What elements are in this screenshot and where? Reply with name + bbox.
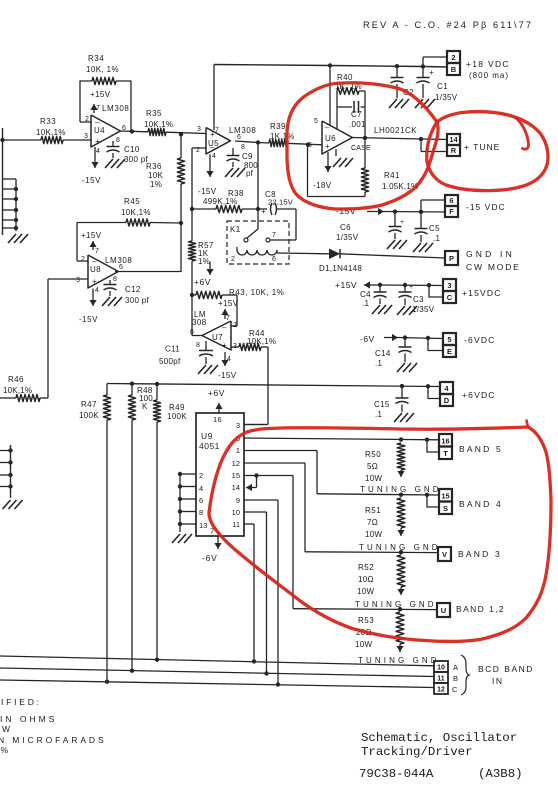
svg-text:LM308: LM308 [229, 126, 256, 135]
svg-text:B: B [451, 65, 457, 74]
svg-text:R35: R35 [146, 109, 162, 118]
svg-text:CIFIED:: CIFIED: [0, 697, 42, 707]
svg-text:16: 16 [213, 415, 222, 424]
svg-text:12: 12 [232, 459, 240, 468]
svg-text:1K,1%: 1K,1% [270, 132, 295, 141]
svg-text:+: + [222, 341, 227, 350]
svg-text:R36: R36 [146, 162, 162, 171]
svg-text:79C38-044A: 79C38-044A [359, 767, 434, 781]
svg-text:8: 8 [196, 342, 200, 349]
svg-text:+: + [409, 284, 413, 291]
svg-text:–: – [92, 257, 97, 266]
svg-text:15: 15 [232, 471, 240, 480]
svg-text:4: 4 [212, 153, 216, 160]
svg-text:U8: U8 [90, 265, 101, 274]
svg-text:6: 6 [272, 256, 276, 263]
svg-text:-6VDC: -6VDC [464, 335, 496, 345]
svg-text:6: 6 [308, 142, 312, 149]
svg-text:R43, 10K, 1%: R43, 10K, 1% [229, 288, 284, 297]
svg-text:R45: R45 [124, 197, 140, 206]
svg-text:10K: 10K [148, 171, 163, 180]
svg-text:10W: 10W [355, 640, 372, 649]
svg-text:R: R [451, 146, 457, 155]
svg-text:3: 3 [76, 277, 80, 284]
svg-text:LM308: LM308 [102, 104, 129, 113]
svg-text:+: + [95, 137, 100, 146]
svg-text:K: K [142, 402, 148, 411]
svg-text:7: 7 [95, 248, 99, 255]
svg-text:1%: 1% [198, 257, 210, 266]
svg-text:P: P [449, 254, 454, 263]
svg-text:+15V: +15V [81, 231, 102, 240]
svg-text:R34: R34 [88, 54, 104, 63]
svg-text:BAND 3: BAND 3 [458, 549, 502, 559]
svg-text:REV A - C.O. #24 Pβ 611\77: REV A - C.O. #24 Pβ 611\77 [363, 20, 533, 30]
svg-text:(A3B8): (A3B8) [478, 767, 523, 781]
svg-text:C3: C3 [413, 295, 424, 304]
svg-text:14: 14 [232, 483, 240, 492]
svg-text:10K,1%: 10K,1% [144, 120, 173, 129]
svg-text:CW MODE: CW MODE [466, 262, 521, 272]
svg-text:+: + [261, 207, 266, 216]
svg-text:8: 8 [113, 276, 117, 283]
svg-text:+15V: +15V [90, 90, 111, 99]
svg-text:-15V: -15V [198, 187, 217, 196]
svg-text:4: 4 [95, 287, 99, 294]
svg-text:15: 15 [441, 492, 449, 501]
svg-text:10W: 10W [365, 530, 382, 539]
svg-text:13: 13 [199, 521, 207, 530]
svg-text:IN: IN [492, 676, 504, 686]
svg-text:BAND 4: BAND 4 [459, 499, 503, 509]
svg-text:TUNING GND: TUNING GND [355, 600, 437, 609]
svg-text:–: – [325, 123, 330, 132]
svg-text:9: 9 [236, 496, 240, 505]
svg-text:-18V: -18V [313, 181, 332, 190]
svg-text:U9: U9 [201, 431, 213, 441]
svg-text:10: 10 [232, 508, 240, 517]
svg-text:4051: 4051 [199, 441, 220, 451]
svg-text:10Ω: 10Ω [358, 575, 374, 584]
svg-text:U4: U4 [94, 126, 105, 135]
svg-text:1/35V: 1/35V [435, 93, 458, 102]
svg-text:22,15V: 22,15V [268, 198, 293, 207]
svg-text:R52: R52 [358, 563, 374, 572]
svg-text:–: – [222, 323, 227, 332]
svg-text:R40: R40 [337, 73, 353, 82]
svg-text:%: % [1, 745, 11, 755]
svg-text:C11: C11 [165, 345, 180, 354]
svg-text:D1,1N4148: D1,1N4148 [319, 264, 362, 273]
svg-text:10W: 10W [365, 474, 382, 483]
svg-text:R47: R47 [81, 400, 97, 409]
svg-text:12: 12 [437, 687, 445, 694]
svg-text:C6: C6 [340, 223, 351, 232]
svg-text:100K: 100K [79, 411, 99, 420]
svg-text:+6V: +6V [208, 388, 225, 398]
svg-text:Tracking/Driver: Tracking/Driver [361, 745, 473, 759]
svg-text:E: E [447, 347, 452, 356]
svg-text:-15V: -15V [82, 176, 101, 185]
svg-text:8: 8 [116, 137, 120, 144]
svg-text:N MICROFARADS: N MICROFARADS [0, 735, 107, 745]
svg-text:10K, 1%: 10K, 1% [86, 65, 119, 74]
svg-text:+ TUNE: + TUNE [464, 142, 500, 152]
svg-text:–: – [95, 118, 100, 127]
svg-text:BAND 1,2: BAND 1,2 [456, 604, 505, 614]
svg-text:-6V: -6V [202, 553, 218, 563]
svg-text:10K,1%: 10K,1% [121, 208, 151, 217]
svg-text:3: 3 [236, 421, 240, 430]
svg-text:5: 5 [447, 335, 451, 344]
svg-text:R49: R49 [169, 403, 185, 412]
svg-text:R33: R33 [40, 117, 56, 126]
svg-text:11: 11 [232, 520, 240, 529]
svg-text:Schematic, Oscillator: Schematic, Oscillator [361, 731, 517, 745]
svg-text:1: 1 [236, 446, 240, 455]
svg-text:+: + [92, 277, 97, 286]
svg-text:–: – [210, 143, 215, 152]
svg-text:7: 7 [272, 232, 276, 239]
svg-text:8: 8 [199, 508, 203, 517]
svg-text:C: C [447, 293, 453, 302]
svg-text:C12: C12 [125, 285, 141, 294]
svg-text:C4: C4 [360, 290, 371, 299]
svg-text:C10: C10 [124, 145, 140, 154]
svg-text:4: 4 [96, 148, 100, 155]
svg-text:GND IN: GND IN [466, 249, 515, 259]
svg-text:TUNING GND: TUNING GND [359, 543, 441, 552]
svg-text:C7: C7 [351, 110, 362, 119]
svg-text:C9: C9 [242, 152, 253, 161]
svg-text:IN OHMS: IN OHMS [0, 714, 57, 724]
svg-text:T: T [443, 449, 448, 458]
svg-text:+15V: +15V [218, 299, 239, 308]
svg-text:F: F [449, 207, 454, 216]
svg-text:C5: C5 [429, 224, 440, 233]
svg-text:16: 16 [441, 437, 449, 446]
svg-text:2: 2 [451, 53, 455, 62]
svg-text:R39: R39 [270, 122, 286, 131]
svg-text:C14: C14 [375, 349, 391, 358]
svg-text:6: 6 [449, 196, 453, 205]
svg-text:300 pf: 300 pf [125, 296, 150, 305]
svg-text:BCD BAND: BCD BAND [478, 664, 534, 674]
svg-text:308: 308 [192, 318, 207, 327]
svg-text:-15V: -15V [79, 315, 98, 324]
svg-text:+6VDC: +6VDC [462, 390, 496, 400]
svg-text:LH0021CK: LH0021CK [374, 126, 417, 135]
svg-text:5: 5 [314, 118, 318, 125]
svg-text:+: + [325, 142, 330, 151]
svg-text:V: V [442, 550, 447, 559]
svg-text:B: B [453, 674, 458, 683]
svg-text:14: 14 [449, 135, 458, 144]
svg-text:2: 2 [85, 116, 89, 123]
svg-text:100K: 100K [167, 412, 187, 421]
svg-text:R51: R51 [365, 506, 381, 515]
svg-text:+: + [429, 68, 434, 77]
svg-text:TUNING GND: TUNING GND [360, 485, 442, 494]
svg-text:-15V: -15V [218, 371, 237, 380]
svg-text:7Ω: 7Ω [367, 518, 378, 527]
svg-text:11: 11 [437, 676, 445, 683]
svg-text:2: 2 [81, 256, 85, 263]
svg-text:C1: C1 [437, 82, 448, 91]
svg-text:10K,1%: 10K,1% [247, 337, 276, 346]
svg-text:.1: .1 [433, 234, 441, 243]
svg-text:U: U [441, 606, 446, 615]
svg-text:(800 ma): (800 ma) [469, 71, 509, 80]
svg-text:2: 2 [231, 256, 235, 263]
svg-text:5Ω: 5Ω [367, 462, 378, 471]
svg-text:BAND 5: BAND 5 [459, 444, 503, 454]
svg-text:+15V: +15V [335, 280, 357, 290]
svg-text:10W: 10W [357, 587, 374, 596]
svg-text:.001: .001 [349, 120, 366, 129]
svg-text:K1: K1 [230, 225, 241, 234]
svg-text:2: 2 [199, 471, 203, 480]
svg-text:+6V: +6V [194, 277, 211, 287]
svg-text:10: 10 [437, 665, 445, 672]
svg-text:.1: .1 [375, 410, 383, 419]
svg-text:3: 3 [84, 133, 88, 140]
svg-text:+: + [210, 130, 215, 139]
svg-text:1/35V: 1/35V [336, 233, 359, 242]
svg-text:6: 6 [119, 264, 123, 271]
svg-text:R50: R50 [365, 450, 381, 459]
svg-text:4: 4 [227, 356, 231, 363]
svg-text:CASE: CASE [351, 145, 371, 152]
svg-text:TUNING GND: TUNING GND [358, 656, 440, 665]
svg-text:7: 7 [215, 127, 219, 134]
svg-text:499K,1%: 499K,1% [203, 197, 238, 206]
svg-text:+: + [400, 219, 404, 226]
svg-text:7: 7 [96, 105, 100, 112]
svg-text:300 pf: 300 pf [124, 155, 149, 164]
svg-text:7: 7 [226, 315, 230, 322]
svg-text:8: 8 [241, 144, 245, 151]
svg-text:3: 3 [197, 126, 201, 133]
svg-text:.1: .1 [362, 299, 370, 308]
svg-text:+15VDC: +15VDC [462, 288, 502, 298]
svg-text:-6V: -6V [360, 334, 375, 344]
svg-text:R41: R41 [384, 171, 400, 180]
svg-text:R53: R53 [358, 616, 374, 625]
svg-text:pf: pf [246, 169, 254, 178]
svg-text:1%: 1% [150, 180, 162, 189]
svg-text:S: S [443, 504, 448, 513]
svg-text:500pf: 500pf [159, 357, 181, 366]
svg-text:W: W [2, 724, 12, 734]
svg-text:-15 VDC: -15 VDC [466, 202, 506, 212]
svg-text:4: 4 [199, 484, 203, 493]
svg-text:A: A [453, 663, 458, 672]
svg-text:D: D [444, 396, 450, 405]
svg-text:.1: .1 [375, 359, 383, 368]
svg-text:+18 VDC: +18 VDC [466, 59, 510, 69]
svg-text:10K,1%: 10K,1% [3, 386, 32, 395]
svg-text:10K,1%: 10K,1% [36, 128, 66, 137]
svg-text:C15: C15 [374, 400, 390, 409]
svg-text:6: 6 [199, 496, 203, 505]
svg-text:6: 6 [237, 134, 241, 141]
svg-text:3: 3 [447, 281, 451, 290]
svg-text:1/35V: 1/35V [412, 305, 435, 314]
svg-text:C: C [452, 685, 458, 694]
svg-text:R46: R46 [8, 375, 24, 384]
